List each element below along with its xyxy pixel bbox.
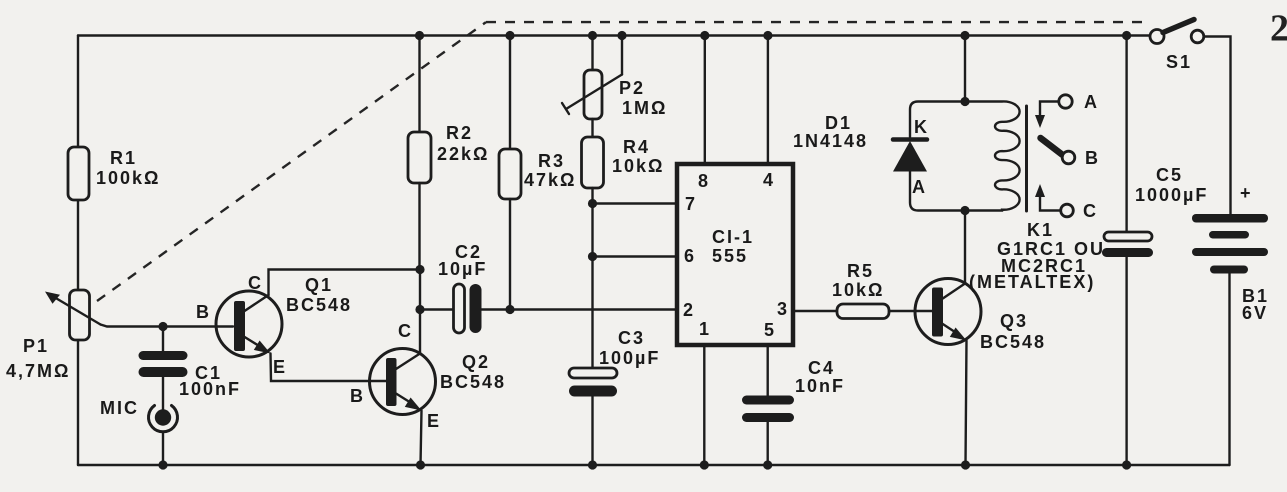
svg-text:BC548: BC548 xyxy=(440,372,506,392)
svg-text:K: K xyxy=(914,117,929,137)
node junction Q3 emitter ground xyxy=(961,460,970,469)
wire Q1 collector up and right xyxy=(269,270,421,296)
transistor Q1 BC548 xyxy=(196,273,352,377)
node junction C5 ground xyxy=(1122,460,1131,469)
wire pin 1 to ground xyxy=(703,345,705,465)
capacitor C2 xyxy=(420,242,677,333)
svg-text:C3: C3 xyxy=(618,328,645,348)
capacitor C5 xyxy=(1102,36,1208,466)
battery B1 xyxy=(1192,183,1269,465)
svg-text:2: 2 xyxy=(1270,8,1287,50)
node junction C5 rail xyxy=(1122,31,1131,40)
svg-text:22kΩ: 22kΩ xyxy=(437,144,489,164)
wire bottom ground rail xyxy=(78,464,1230,466)
node junction MIC/ground xyxy=(158,460,167,469)
wire Q2 collector up to R2 line xyxy=(419,270,421,354)
svg-text:C: C xyxy=(1083,201,1098,221)
capacitor C4 xyxy=(742,358,845,465)
wire pin 4 to rail xyxy=(767,36,769,165)
node junction C2 tap xyxy=(415,305,424,314)
svg-text:1: 1 xyxy=(699,319,711,339)
wire S1 to battery top xyxy=(1204,37,1231,215)
svg-text:100µF: 100µF xyxy=(599,348,660,368)
node junction R3 top rail xyxy=(505,31,514,40)
svg-text:P2: P2 xyxy=(619,78,645,98)
node junction pin4 rail xyxy=(763,31,772,40)
node junction P2 top rail xyxy=(588,31,597,40)
svg-text:3: 3 xyxy=(777,299,789,319)
resistor R4 xyxy=(582,119,665,204)
wire pin 6 tap xyxy=(593,255,678,257)
svg-text:47kΩ: 47kΩ xyxy=(524,170,576,190)
wire R4 to pin 7 xyxy=(593,202,678,204)
wire top supply rail xyxy=(78,34,1150,36)
node junction Q2 emitter/ground xyxy=(416,460,425,469)
svg-text:6V: 6V xyxy=(1242,303,1268,323)
node junction C3/ground xyxy=(588,460,597,469)
svg-text:Q3: Q3 xyxy=(1000,311,1028,331)
svg-text:S1: S1 xyxy=(1166,52,1192,72)
wire pin 8 to rail xyxy=(704,36,706,165)
svg-text:K1: K1 xyxy=(1027,220,1054,240)
wire pin 3 to R5 xyxy=(793,310,837,312)
op-amp U1 (CI-1 555 timer box) xyxy=(677,164,793,345)
svg-text:A: A xyxy=(1084,92,1099,112)
node junction C4/ground xyxy=(763,460,772,469)
wire relay feed from rail xyxy=(964,36,966,102)
resistor R1 xyxy=(68,147,89,200)
node junction relay rail xyxy=(960,31,969,40)
svg-text:4: 4 xyxy=(763,170,775,190)
transistor Q3 BC548 xyxy=(915,279,1046,353)
relay K1 coil xyxy=(965,101,1105,292)
svg-text:555: 555 xyxy=(712,246,748,266)
wire left rail (R1/P1 branch) xyxy=(77,36,79,148)
svg-text:C: C xyxy=(398,321,413,341)
svg-text:8: 8 xyxy=(698,171,710,191)
node junction P1/C1 xyxy=(158,322,167,331)
svg-text:R5: R5 xyxy=(847,261,874,281)
svg-text:10kΩ: 10kΩ xyxy=(832,280,884,300)
svg-text:1N4148: 1N4148 xyxy=(793,131,868,151)
svg-text:C5: C5 xyxy=(1156,165,1183,185)
capacitor C3 xyxy=(569,328,660,465)
transistor Q2 BC548 xyxy=(350,321,506,431)
node junction pin7/R4 xyxy=(588,199,597,208)
relay contact C xyxy=(1035,184,1098,221)
svg-text:B: B xyxy=(196,302,211,322)
diode D1 1N4148 xyxy=(793,102,965,211)
svg-text:C4: C4 xyxy=(808,358,835,378)
svg-text:100kΩ: 100kΩ xyxy=(96,168,160,188)
svg-text:CI-1: CI-1 xyxy=(712,227,754,247)
node junction R3/C2 line xyxy=(505,305,514,314)
svg-text:4,7MΩ: 4,7MΩ xyxy=(6,361,70,381)
svg-text:Q1: Q1 xyxy=(305,275,333,295)
node junction pin6 tap xyxy=(588,252,597,261)
node junction Q1 collector xyxy=(415,265,424,274)
svg-text:+: + xyxy=(1240,183,1253,203)
svg-text:A: A xyxy=(912,177,927,197)
node junction pin8 rail xyxy=(700,31,709,40)
svg-text:R2: R2 xyxy=(446,123,473,143)
svg-text:100nF: 100nF xyxy=(179,379,241,399)
node junction relay top xyxy=(960,97,969,106)
svg-text:7: 7 xyxy=(685,194,697,214)
resistor R2 xyxy=(408,36,489,270)
dashed line diagonal xyxy=(97,22,486,301)
dashed line horizontal xyxy=(486,21,1151,23)
wire pin 5 to C4 xyxy=(767,345,769,396)
svg-text:10kΩ: 10kΩ xyxy=(612,156,664,176)
potentiometer P1 xyxy=(6,290,101,381)
wire Q1 emitter down to Q2 base xyxy=(271,354,387,382)
node junction pin1 ground xyxy=(700,460,709,469)
resistor R3 xyxy=(499,36,576,310)
relay armature xyxy=(1041,138,1063,155)
relay contact B xyxy=(1062,148,1100,168)
wire Q3 emitter to ground xyxy=(966,341,967,466)
wire down to pin 6 tap xyxy=(591,204,593,257)
svg-text:1000µF: 1000µF xyxy=(1135,185,1208,205)
svg-text:C: C xyxy=(248,273,263,293)
svg-text:E: E xyxy=(273,357,287,377)
svg-text:2: 2 xyxy=(683,300,695,320)
wire Q2 emitter down to ground xyxy=(421,411,422,466)
svg-text:10µF: 10µF xyxy=(438,259,487,279)
svg-text:(METALTEX): (METALTEX) xyxy=(969,272,1095,292)
microphone MIC xyxy=(100,398,178,465)
capacitor C1 xyxy=(139,327,242,412)
potentiometer P2 xyxy=(562,36,667,120)
svg-text:5: 5 xyxy=(764,320,776,340)
svg-text:BC548: BC548 xyxy=(286,295,352,315)
svg-text:MIC: MIC xyxy=(100,398,139,418)
svg-text:10nF: 10nF xyxy=(795,376,845,396)
node junction P2 wiper rail xyxy=(617,31,626,40)
svg-text:R4: R4 xyxy=(623,137,650,157)
svg-text:6: 6 xyxy=(684,246,696,266)
svg-text:BC548: BC548 xyxy=(980,332,1046,352)
relay contact A xyxy=(1035,92,1099,128)
svg-text:B: B xyxy=(1085,148,1100,168)
wire P1 wiper to Q1 base xyxy=(101,325,234,327)
wire P1 bottom to ground rail xyxy=(77,339,79,465)
wire Q3 collector to relay xyxy=(964,211,966,284)
resistor R5 xyxy=(832,261,932,319)
svg-text:E: E xyxy=(427,411,441,431)
svg-text:1MΩ: 1MΩ xyxy=(622,98,667,118)
switch S1 xyxy=(1150,20,1204,73)
wire down to C3 xyxy=(591,257,593,369)
svg-text:Q2: Q2 xyxy=(462,352,490,372)
svg-text:P1: P1 xyxy=(23,336,49,356)
node junction relay bottom xyxy=(960,206,969,215)
wire R1 to P1 xyxy=(77,200,79,290)
svg-text:R1: R1 xyxy=(110,148,137,168)
svg-text:B: B xyxy=(350,386,365,406)
svg-text:D1: D1 xyxy=(825,113,852,133)
svg-text:R3: R3 xyxy=(538,151,565,171)
node junction R2 top rail xyxy=(415,31,424,40)
